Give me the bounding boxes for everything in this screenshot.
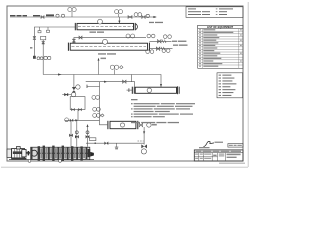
wire: pipe to vessel V1 <box>34 27 75 58</box>
instrument pair 3 with diamond <box>93 114 104 118</box>
signature squiggle <box>204 141 215 146</box>
coupling <box>26 151 30 155</box>
drip leg symbols under pipe <box>38 27 50 33</box>
instrument circle on branch <box>126 34 130 38</box>
valve on top pipe <box>128 16 132 19</box>
tag box <box>90 138 96 141</box>
valve on branch line <box>79 36 82 39</box>
wire: loop drain stub <box>77 110 79 121</box>
wire: line y=86.3 <box>87 85 100 87</box>
wire: outlet arrow <box>150 16 156 18</box>
instrument pair 2 <box>93 107 101 111</box>
instrument pair CW1 <box>147 34 155 38</box>
pedestal circle 2 <box>59 160 62 163</box>
flex hose marks CW2 <box>161 47 165 50</box>
vessel V2 centerline <box>72 46 147 48</box>
page shadow <box>1 2 248 167</box>
CW2 label <box>173 45 188 46</box>
vessel V4 shell <box>108 121 138 129</box>
outlet label <box>149 22 163 23</box>
pedestal circle 1 <box>28 160 31 163</box>
instrument circle pair with stem <box>68 8 76 18</box>
instrument circle on branch 2 <box>131 34 135 38</box>
valve after V4 <box>139 123 142 126</box>
flow arrow <box>104 81 108 83</box>
flow arrow on main line <box>58 73 62 75</box>
drain stub <box>115 143 119 147</box>
instrument circle <box>146 14 149 17</box>
wire: riser C <box>70 120 72 146</box>
wire: V3 inlet stub <box>127 89 133 91</box>
valve on top pipe <box>142 16 145 19</box>
valve on riser A <box>75 135 79 139</box>
info box <box>186 7 243 18</box>
instrument circle <box>56 14 59 17</box>
vent circle <box>141 149 146 154</box>
wire: riser from top pipe into V1 <box>118 17 120 23</box>
wire: CW line 1 <box>149 40 171 42</box>
valve on loop bottom 2 <box>78 108 81 111</box>
wire: line to V4 <box>65 119 100 121</box>
wire: CW line 2 <box>149 48 172 50</box>
valve on elbow riser <box>72 39 75 42</box>
wire: main horizontal line <box>43 75 161 87</box>
wire: riser B <box>87 125 89 147</box>
wire: riser A <box>76 120 78 146</box>
instrument circle pair <box>44 56 47 59</box>
valve on loop bottom <box>71 108 74 111</box>
motor M1 <box>7 147 26 160</box>
valve CW2 <box>156 47 159 50</box>
valve on riser B <box>86 135 90 139</box>
wire: transfer line to V3 <box>86 82 135 87</box>
dashed signal into vent line <box>138 140 144 142</box>
instrument pair 1 <box>92 96 100 100</box>
valve 1 <box>123 80 126 83</box>
CW1 label <box>172 41 186 42</box>
wire: suction line <box>86 142 144 144</box>
instrument circle pair with stem <box>115 10 123 17</box>
instrument pair CW2 <box>146 50 154 54</box>
flex hose marks CW1 <box>162 40 166 43</box>
svg-text:LIST OF EQUIPMENT: LIST OF EQUIPMENT <box>207 25 233 29</box>
footer text below border <box>219 163 245 164</box>
valve on riser C <box>69 134 73 137</box>
border frame <box>7 6 243 161</box>
skid baseline <box>9 159 94 161</box>
valve on top pipe <box>41 16 44 19</box>
valve on line <box>70 119 73 122</box>
single note line <box>131 122 179 123</box>
gauge circles <box>37 57 40 60</box>
instrument circle pair <box>134 13 142 17</box>
label text on top pipe (left) <box>10 14 54 16</box>
valve on suction line <box>104 142 108 146</box>
vessel V1 centerline <box>78 26 133 28</box>
wire: elbow feeding V2 <box>74 38 146 44</box>
valve blob bottom of left vertical <box>33 56 36 59</box>
circle on riser A <box>75 131 78 134</box>
instrument circle <box>61 14 64 17</box>
vessel V2 shell <box>68 43 149 51</box>
instrument group above main line <box>110 65 123 74</box>
pilot circle <box>71 92 75 96</box>
title block <box>194 150 243 161</box>
vent stub with arrow <box>98 59 100 75</box>
valve with tag <box>42 42 45 45</box>
arrow into V3 <box>160 84 162 87</box>
vessel V1 shell <box>75 23 137 30</box>
instrument pair CW2b <box>162 49 170 53</box>
vessel V3 shell <box>132 86 179 94</box>
instrument circle <box>76 85 80 89</box>
tag box <box>41 36 46 40</box>
instrument circle on V1 <box>98 19 103 24</box>
instrument circle in V4 <box>120 123 124 127</box>
wire: drop from main line <box>73 75 75 88</box>
instrument pair CW1b <box>163 35 171 39</box>
bypass loop rectangle <box>70 97 85 110</box>
compressor C1 <box>31 146 94 161</box>
wire: vertical instrument column <box>99 82 101 121</box>
circle on line <box>65 118 69 122</box>
wire: top header pipe <box>10 16 150 18</box>
wire: vent drop <box>143 127 145 145</box>
revision strip <box>228 144 243 148</box>
wire: vertical to main line <box>42 40 44 75</box>
valve on left vertical <box>33 37 36 40</box>
instrument circle on V2 <box>103 39 108 44</box>
V2 label <box>98 53 116 54</box>
scale note above title block <box>199 147 210 148</box>
label X <box>30 47 32 49</box>
wire: stub left of pilot <box>62 94 71 96</box>
wire: connector x=131.4 <box>130 75 132 82</box>
circle on riser B <box>86 131 89 134</box>
small valve on stub <box>65 93 69 96</box>
valve CW1 <box>158 40 162 43</box>
instrument circle in V3 <box>147 88 151 92</box>
V1 label <box>90 32 105 33</box>
arrow on line at riser A <box>75 119 78 121</box>
instrument circle after V4 <box>147 123 151 127</box>
junction dot <box>94 142 96 144</box>
relief valve <box>72 87 76 92</box>
vent valve <box>141 144 147 148</box>
